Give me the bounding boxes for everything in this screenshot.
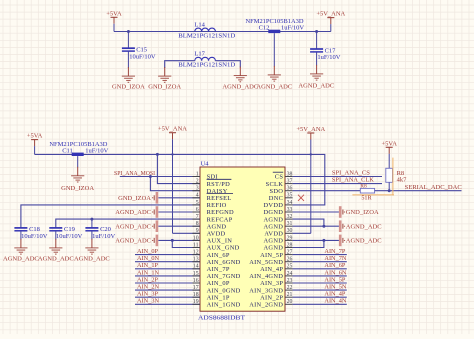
wire AGND pin32 tie: [293, 219, 324, 226]
svg-text:DNC: DNC: [269, 195, 283, 202]
pin 9: [192, 228, 225, 237]
svg-text:AIN_5P: AIN_5P: [260, 252, 283, 259]
svg-text:38: 38: [287, 171, 293, 177]
svg-text:AIN_4P: AIN_4P: [260, 266, 283, 273]
svg-text:AGND_ADC: AGND_ADC: [346, 238, 382, 245]
node junction C20 tap: [90, 218, 93, 221]
svg-text:18: 18: [193, 292, 199, 298]
svg-text:AIN_2N: AIN_2N: [137, 284, 159, 291]
node junction AUX tie: [171, 239, 174, 242]
resistor R8 4k7: [386, 168, 407, 183]
svg-text:AIN_0GND: AIN_0GND: [207, 287, 241, 294]
wire SDO pin36 to R8: [293, 190, 361, 192]
svg-text:AGND_ADC: AGND_ADC: [298, 82, 334, 89]
wire AIN_7N to pin26: [293, 261, 347, 263]
wire SCLK pin37: [293, 183, 382, 185]
svg-text:GND_IZOA: GND_IZOA: [112, 84, 145, 91]
svg-text:1uF/10V: 1uF/10V: [85, 148, 108, 155]
svg-text:15: 15: [193, 271, 199, 277]
svg-text:2: 2: [196, 179, 199, 185]
svg-text:AIN_0P: AIN_0P: [137, 248, 158, 255]
pin 35: [269, 193, 293, 202]
pin 2 overline: [207, 178, 232, 180]
svg-text:AIN_7GND: AIN_7GND: [207, 273, 241, 280]
wire AIN_1P to pin14: [135, 268, 200, 270]
svg-text:AIN_6P: AIN_6P: [324, 262, 345, 269]
wire AIN_3P to pin18: [135, 296, 200, 298]
pin 24: [249, 271, 292, 280]
svg-text:AIN_6GND: AIN_6GND: [207, 259, 241, 266]
svg-text:AGND_ADC: AGND_ADC: [115, 238, 151, 245]
svg-text:17: 17: [193, 285, 199, 291]
wire AIN_4N to pin20: [293, 303, 347, 305]
pin 25: [260, 264, 293, 273]
pin 29: [264, 235, 293, 244]
svg-text:6: 6: [196, 207, 199, 213]
svg-text:7: 7: [196, 214, 199, 220]
svg-text:AGND_ADC: AGND_ADC: [256, 84, 292, 91]
svg-text:10uF/10V: 10uF/10V: [21, 233, 48, 240]
power +5V_ANA mid: [158, 126, 187, 234]
pin 12: [192, 250, 229, 259]
svg-text:ADS8688IDBT: ADS8688IDBT: [198, 315, 245, 322]
wire C18 to ground: [20, 231, 22, 240]
node junction pin31/32: [322, 225, 325, 228]
svg-text:AIN_3GND: AIN_3GND: [249, 287, 283, 294]
power +5V_ANA top-right: [316, 11, 345, 32]
wire +5VA rail to +5V_ANA: [114, 31, 331, 33]
pin 10: [192, 235, 232, 244]
svg-text:REFSEL: REFSEL: [207, 195, 232, 202]
svg-text:AGND_ADC: AGND_ADC: [115, 209, 151, 216]
svg-text:AIN_0P: AIN_0P: [207, 280, 230, 287]
op-amp U4 ADS8688IDBT ADC body: [198, 161, 285, 322]
svg-text:AIN_1P: AIN_1P: [137, 262, 158, 269]
wire AIN_6P to pin25: [293, 268, 347, 270]
ground GND_IZOA at L17 left: [158, 67, 171, 82]
pin 14: [192, 264, 229, 273]
svg-text:AGND: AGND: [264, 216, 284, 223]
pin 38: [275, 171, 293, 180]
wire +5V_ANA mid rail: [35, 154, 325, 205]
svg-text:AGND: AGND: [264, 223, 284, 230]
svg-text:+5V_ANA: +5V_ANA: [296, 126, 325, 133]
wire REFIO pin5 to C18: [21, 205, 200, 228]
svg-text:AIN_1GND: AIN_1GND: [207, 302, 241, 309]
svg-text:AIN_6P: AIN_6P: [207, 252, 230, 259]
pin 13: [192, 257, 240, 266]
svg-text:GND_IZOA: GND_IZOA: [118, 195, 151, 202]
wire C15 stem: [127, 32, 129, 49]
wire R8 to SERIAL_ADC_DAC: [375, 190, 462, 192]
wire AUX_GND pin11 tie: [172, 240, 200, 247]
pin 37: [266, 179, 293, 188]
ground AGND_ADC at L17 right: [234, 67, 247, 82]
capacitor C17 1uF/10V: [310, 47, 341, 61]
svg-text:REFGND: REFGND: [207, 209, 234, 216]
wire R8 bottom: [388, 182, 390, 190]
svg-text:26: 26: [287, 257, 293, 263]
wire pin6 stub: [158, 211, 200, 213]
node junction R8 pullup: [388, 189, 391, 192]
wire AVDD pin9: [173, 232, 201, 234]
svg-text:25: 25: [287, 264, 293, 270]
svg-text:AIN_4P: AIN_4P: [324, 291, 345, 298]
svg-text:30: 30: [287, 228, 293, 234]
orange marker line vertical: [392, 158, 394, 195]
wire C17 to ground: [316, 52, 318, 65]
wire DGND pin33: [293, 211, 339, 213]
wire AGND pin29: [293, 239, 339, 241]
svg-text:AGND_ADC: AGND_ADC: [38, 255, 74, 262]
ground AGND_ADC under C18: [14, 239, 27, 254]
orange marker line horizontal: [352, 194, 394, 196]
svg-text:23: 23: [287, 278, 293, 284]
node junction C15 tap: [127, 30, 130, 33]
wire +5V_ANA to pin2 RST/PD: [157, 154, 200, 183]
wire C15 to ground: [127, 51, 129, 68]
svg-text:13: 13: [193, 257, 199, 263]
svg-text:1: 1: [196, 171, 199, 177]
pin 8: [192, 221, 226, 230]
wire pin10 stub: [158, 239, 200, 241]
svg-text:AIN_4GND: AIN_4GND: [249, 273, 283, 280]
svg-text:L17: L17: [194, 51, 205, 58]
wire AIN_6N to pin24: [293, 275, 347, 277]
power +5VA right: [381, 140, 397, 168]
svg-text:AIN_7P: AIN_7P: [324, 248, 345, 255]
wire AGND pin31: [293, 225, 339, 227]
svg-text:31: 31: [287, 221, 293, 227]
svg-text:AGND_ADC: AGND_ADC: [222, 84, 258, 91]
svg-text:4k7: 4k7: [397, 176, 408, 183]
svg-text:22: 22: [287, 285, 293, 291]
svg-text:9: 9: [196, 228, 199, 234]
wire C19 to ground: [55, 231, 57, 240]
svg-text:AGND_ADC: AGND_ADC: [74, 255, 110, 262]
power port AGND_ADC pin8: [115, 220, 158, 232]
svg-text:AVDD: AVDD: [264, 231, 283, 238]
capacitor C19 10uF/10V: [49, 226, 82, 240]
power +5VA top-left: [106, 10, 122, 31]
svg-text:R8: R8: [360, 183, 367, 189]
svg-text:1uF/10V: 1uF/10V: [92, 233, 115, 240]
svg-text:10uF/10V: 10uF/10V: [129, 53, 156, 60]
no-connect X pin35 DNC: [298, 195, 304, 201]
svg-text:SPI_ANA_CLK: SPI_ANA_CLK: [332, 177, 374, 184]
svg-text:1uF/10V: 1uF/10V: [281, 25, 304, 32]
svg-text:+5VA: +5VA: [27, 133, 43, 140]
svg-text:16: 16: [193, 278, 199, 284]
capacitor C18 10uF/10V: [14, 226, 47, 240]
ground AGND_ADC under C19: [49, 239, 62, 254]
pin 2: [192, 179, 230, 188]
power port AGND_ADC pin10: [115, 235, 158, 247]
svg-text:1uF/10V: 1uF/10V: [317, 54, 340, 61]
svg-text:AUX_IN: AUX_IN: [207, 238, 233, 245]
pin 18: [192, 292, 229, 301]
node junction stem crossing: [171, 153, 173, 155]
svg-text:SCLK: SCLK: [266, 181, 284, 188]
ground AGND_ADC under C20: [85, 239, 98, 254]
wire pin8 stub: [158, 225, 200, 227]
svg-text:4: 4: [196, 193, 199, 199]
wire REFCAP pin7 to C19: [56, 219, 200, 228]
wire AIN_4P to pin21: [293, 296, 347, 298]
svg-text:AIN_6N: AIN_6N: [324, 269, 346, 276]
ground AGND_ADC under C12: [268, 66, 281, 81]
wire L17 right terminal: [215, 61, 240, 68]
svg-text:21: 21: [287, 292, 293, 298]
pin 31: [264, 221, 293, 230]
capacitor C12 NFM21PC105B1A3D feedthrough: [268, 30, 280, 33]
svg-text:AIN_3P: AIN_3P: [137, 291, 158, 298]
pin 30: [264, 228, 292, 237]
pin 20: [249, 299, 292, 308]
wire CS pin38: [293, 176, 382, 178]
pin 7: [192, 214, 232, 223]
svg-text:24: 24: [287, 271, 293, 277]
svg-text:AIN_2GND: AIN_2GND: [249, 302, 283, 309]
power port AGND_ADC pin31: [339, 220, 382, 232]
svg-text:AIN_0N: AIN_0N: [137, 255, 159, 262]
pin 17: [192, 285, 240, 294]
svg-text:+5V_ANA: +5V_ANA: [158, 126, 187, 133]
inductor L14 BLM21PG121SN1D: [178, 22, 235, 40]
svg-text:AIN_5N: AIN_5N: [324, 284, 346, 291]
pin 16: [192, 278, 229, 287]
power port GND_IZOA pin4: [118, 192, 158, 204]
svg-text:34: 34: [287, 200, 293, 206]
node junction RST branch: [156, 153, 159, 156]
pin 4: [192, 193, 231, 202]
pin 23: [260, 278, 293, 287]
pin 5: [192, 200, 226, 209]
pin 32: [264, 214, 293, 223]
pin 22: [249, 285, 292, 294]
svg-text:SPI_ANA_MOSI: SPI_ANA_MOSI: [114, 170, 155, 177]
svg-text:AIN_1P: AIN_1P: [207, 294, 230, 301]
svg-text:AIN_3P: AIN_3P: [260, 280, 283, 287]
pin 19: [192, 299, 240, 308]
svg-text:AIN_5P: AIN_5P: [324, 276, 345, 283]
svg-text:5: 5: [196, 200, 199, 206]
svg-text:AGND_ADC: AGND_ADC: [3, 255, 39, 262]
pin 26: [249, 257, 292, 266]
capacitor C20 1uF/10V: [85, 226, 115, 240]
node junction DAISY tie: [149, 175, 152, 178]
svg-text:3: 3: [196, 186, 199, 192]
svg-text:RST/PD: RST/PD: [207, 181, 231, 188]
wire AIN_5P to pin23: [293, 282, 347, 284]
svg-text:AIN_3N: AIN_3N: [137, 298, 159, 305]
svg-text:AGND_ADC: AGND_ADC: [115, 223, 151, 230]
node junction C17 tap: [315, 30, 318, 33]
svg-text:SPI_ANA_CS: SPI_ANA_CS: [332, 170, 370, 177]
svg-text:AIN_4N: AIN_4N: [324, 298, 346, 305]
svg-text:BLM21PG121SN1D: BLM21PG121SN1D: [178, 62, 235, 69]
wire SDI pin1: [120, 176, 200, 178]
pin 38 overline: [273, 171, 283, 173]
svg-text:29: 29: [287, 235, 293, 241]
wire AIN_0N to pin13: [135, 261, 200, 263]
pin 21: [260, 292, 293, 301]
svg-text:DVDD: DVDD: [264, 202, 284, 209]
svg-text:C11: C11: [62, 148, 73, 155]
power port AGND_ADC pin29: [339, 235, 382, 247]
svg-text:AGND: AGND: [264, 245, 284, 252]
svg-text:GND_IZOA: GND_IZOA: [148, 84, 181, 91]
svg-text:28: 28: [287, 242, 293, 248]
wire C17 stem: [316, 32, 318, 49]
inductor L17 BLM21PG121SN1D: [178, 51, 235, 69]
wire AIN_0P to pin12: [135, 254, 200, 256]
svg-text:32: 32: [287, 214, 293, 220]
svg-text:33: 33: [287, 207, 293, 213]
svg-text:11: 11: [193, 242, 199, 248]
svg-text:+5VA: +5VA: [381, 140, 397, 147]
ground GND_IZOA under C15: [122, 67, 135, 82]
svg-text:10uF/10V: 10uF/10V: [56, 233, 83, 240]
capacitor C11 NFM21PC105B1A3D feedthrough: [72, 153, 84, 156]
svg-text:12: 12: [193, 250, 199, 256]
wire pin4 stub: [158, 197, 200, 199]
resistor R8 51R: [360, 183, 374, 201]
pin 11: [192, 242, 239, 251]
wire AVDD pin30: [293, 232, 311, 234]
svg-text:+5V_ANA: +5V_ANA: [316, 11, 345, 18]
svg-text:27: 27: [287, 250, 293, 256]
svg-text:36: 36: [287, 186, 293, 192]
wire AIN_7P to pin27: [293, 254, 347, 256]
pin 36: [270, 186, 293, 195]
power +5VA mid-left: [27, 133, 43, 155]
pin 34: [264, 200, 293, 209]
pin 1: [192, 171, 217, 180]
power port GND_IZOA pin33: [339, 206, 379, 218]
svg-text:10: 10: [193, 235, 199, 241]
svg-text:37: 37: [287, 179, 293, 185]
svg-text:GND_IZOA: GND_IZOA: [346, 209, 379, 216]
svg-text:CS: CS: [275, 174, 284, 181]
svg-text:AIN_2P: AIN_2P: [137, 276, 158, 283]
power +5V_ANA over chip: [296, 126, 325, 233]
pin 33: [264, 207, 293, 216]
svg-text:AUX_GND: AUX_GND: [207, 245, 240, 252]
wire C20 stem: [91, 219, 93, 228]
wire L17 left terminal: [165, 61, 195, 68]
wire AIN_1N to pin15: [135, 275, 200, 277]
svg-text:AGND: AGND: [207, 223, 227, 230]
wire C12 stem to ground: [273, 33, 275, 66]
ground GND_IZOA under C11: [71, 167, 84, 182]
svg-text:GND_IZOA: GND_IZOA: [61, 185, 94, 192]
pin 4 overline: [207, 193, 233, 195]
svg-text:AIN_2P: AIN_2P: [260, 294, 283, 301]
svg-text:SERIAL_ADC_DAC: SERIAL_ADC_DAC: [405, 184, 462, 191]
pin 15: [192, 271, 240, 280]
pin 28: [264, 242, 293, 251]
wire AIN_3N to pin19: [135, 303, 200, 305]
wire C11 stem to ground: [77, 156, 79, 167]
svg-text:20: 20: [287, 299, 293, 305]
svg-text:L14: L14: [194, 22, 205, 29]
svg-text:SDO: SDO: [270, 188, 284, 195]
ground AGND_ADC under C17: [310, 65, 323, 80]
power port AGND_ADC pin6: [115, 206, 158, 218]
wire C20 to ground: [91, 231, 93, 240]
svg-text:REFCAP: REFCAP: [207, 216, 233, 223]
svg-text:35: 35: [287, 193, 293, 199]
svg-text:AVDD: AVDD: [207, 231, 226, 238]
wire DAISY pin3 tie: [150, 177, 200, 191]
svg-text:AIN_7N: AIN_7N: [324, 255, 346, 262]
svg-text:19: 19: [193, 299, 199, 305]
pin 27: [260, 250, 293, 259]
svg-text:AIN_1N: AIN_1N: [137, 269, 159, 276]
svg-text:8: 8: [196, 221, 199, 227]
svg-text:REFIO: REFIO: [207, 202, 227, 209]
wire AGND pin28 tie: [293, 240, 324, 247]
svg-text:AIN_7P: AIN_7P: [207, 266, 230, 273]
svg-text:U4: U4: [201, 161, 210, 168]
svg-text:AGND_ADC: AGND_ADC: [346, 223, 382, 230]
node junction rail crossing: [310, 153, 312, 155]
pin 6: [192, 207, 234, 216]
svg-text:DGND: DGND: [264, 209, 284, 216]
svg-text:C12: C12: [259, 25, 270, 32]
wire AIN_2N to pin17: [135, 289, 200, 291]
svg-text:BLM21PG121SN1D: BLM21PG121SN1D: [178, 33, 235, 40]
wire AIN_5N to pin22: [293, 289, 347, 291]
capacitor C15 10uF/10V: [122, 47, 156, 61]
node junction pin28/29: [322, 239, 325, 242]
svg-text:AGND: AGND: [264, 238, 284, 245]
svg-text:AIN_5GND: AIN_5GND: [249, 259, 283, 266]
wire AIN_2P to pin16: [135, 282, 200, 284]
pin 3: [192, 186, 227, 195]
svg-text:+5VA: +5VA: [106, 10, 122, 17]
svg-text:14: 14: [193, 264, 199, 270]
